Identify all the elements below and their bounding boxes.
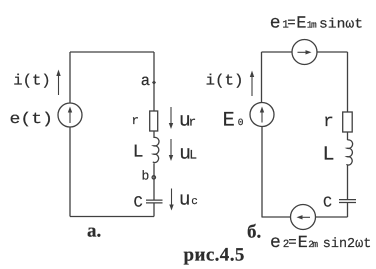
svg-text:L: L xyxy=(323,144,335,167)
wire left-circuit top xyxy=(70,51,154,53)
svg-text:e: e xyxy=(270,233,281,253)
svg-text:E: E xyxy=(296,14,306,33)
svg-text:e: e xyxy=(270,13,281,33)
wire left-circuit resistor-to-inductor xyxy=(153,131,155,138)
inductor L right xyxy=(346,140,352,165)
svg-text:рис.4.5: рис.4.5 xyxy=(184,245,245,266)
svg-text:r: r xyxy=(132,114,140,128)
svg-text:=: = xyxy=(288,235,296,251)
wire right-circuit top-left xyxy=(262,51,293,53)
wire left-circuit inductor-to-capacitor xyxy=(153,163,155,200)
svg-text:a: a xyxy=(141,72,150,90)
wire right-circuit bottom-left xyxy=(262,216,291,218)
svg-text:1m: 1m xyxy=(307,19,317,30)
svg-text:r: r xyxy=(323,112,334,132)
svg-text:L: L xyxy=(189,147,197,162)
svg-text:б.: б. xyxy=(247,222,261,243)
svg-text:e(t): e(t) xyxy=(10,110,54,128)
svg-text:sin2ωt: sin2ωt xyxy=(323,237,372,252)
svg-text:а.: а. xyxy=(87,221,101,242)
source E0 circle xyxy=(250,103,274,127)
svg-text:u: u xyxy=(179,189,190,211)
current arrow i(t) left xyxy=(58,72,60,95)
svg-text:C: C xyxy=(323,194,332,211)
source e2 circle xyxy=(291,205,316,230)
resistor R right xyxy=(343,112,353,132)
voltage arrow uc xyxy=(171,189,173,207)
wire right-circuit left lower xyxy=(261,127,263,218)
source e1 circle xyxy=(292,40,317,65)
wire right-circuit bottom-right xyxy=(316,216,348,218)
svg-text:L: L xyxy=(133,143,144,163)
svg-text:=: = xyxy=(287,15,295,31)
svg-text:i(t): i(t) xyxy=(206,73,244,90)
arrow inside e2 pointing left xyxy=(299,216,310,218)
wire right-circuit top-right xyxy=(317,51,348,53)
source e(t) circle xyxy=(58,103,82,127)
svg-text:sinωt: sinωt xyxy=(319,17,363,32)
svg-text:C: C xyxy=(134,193,143,211)
svg-text:r: r xyxy=(189,116,197,130)
svg-text:c: c xyxy=(191,196,198,208)
wire right-circuit right upper xyxy=(347,52,349,112)
wire right capacitor-to-bottom xyxy=(347,203,349,218)
node b marker xyxy=(152,176,155,179)
capacitor C left top plate xyxy=(146,199,163,201)
arrow inside E0 xyxy=(261,109,263,123)
wire left-circuit bottom xyxy=(70,216,154,218)
wire right resistor-to-inductor xyxy=(347,132,349,140)
wire left-circuit left upper xyxy=(69,52,71,103)
voltage arrow uL xyxy=(170,139,172,157)
svg-text:b: b xyxy=(142,169,150,184)
capacitor C left bottom plate xyxy=(146,202,163,204)
svg-text:E: E xyxy=(298,234,308,253)
wire left-circuit right upper xyxy=(153,52,155,111)
svg-text:i(t): i(t) xyxy=(13,73,51,90)
arrow inside e(t) xyxy=(69,109,71,123)
wire left-circuit left lower xyxy=(69,127,71,217)
svg-text:0: 0 xyxy=(238,117,244,128)
svg-text:E: E xyxy=(223,109,235,132)
capacitor C right top plate xyxy=(339,199,356,201)
wire left-circuit capacitor-to-bottom xyxy=(153,203,155,217)
resistor R left xyxy=(150,111,158,131)
arrow inside e1 pointing right xyxy=(298,51,310,53)
wire right-circuit left upper xyxy=(261,52,263,103)
wire right inductor-to-capacitor xyxy=(347,165,349,199)
svg-text:2m: 2m xyxy=(308,239,318,250)
capacitor C right bottom plate xyxy=(339,202,356,204)
voltage arrow ur xyxy=(170,107,172,125)
node a marker xyxy=(152,80,156,84)
current arrow i(t) right xyxy=(251,73,253,96)
inductor L left xyxy=(153,137,159,162)
